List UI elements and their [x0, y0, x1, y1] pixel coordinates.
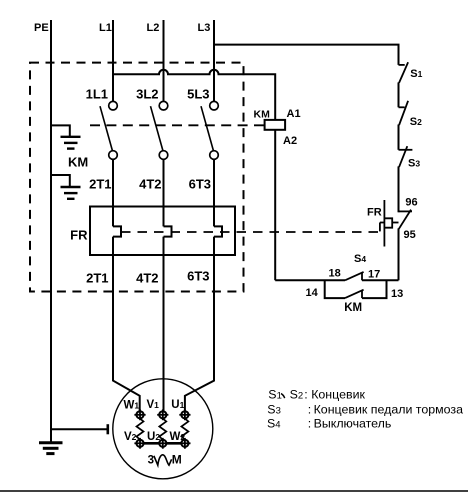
- wire phase 3 contact to heater: [213, 159, 215, 226]
- label KM (aux contact): [344, 302, 362, 314]
- terminal W1: [134, 409, 145, 420]
- terminal V2: [134, 438, 145, 449]
- wire phase 1 contact to heater: [112, 159, 114, 226]
- svg-text:13: 13: [391, 288, 403, 300]
- label W1: [124, 400, 140, 412]
- svg-text:KM: KM: [344, 302, 362, 314]
- terminal V1: [157, 409, 168, 420]
- terminal W2: [179, 438, 190, 449]
- wire L3: [213, 20, 215, 102]
- wire PE bus: [50, 20, 52, 443]
- svg-text:U2: U2: [147, 431, 160, 443]
- wire S3 to FR contact: [398, 166, 400, 212]
- svg-text:95: 95: [404, 229, 416, 241]
- svg-text:KM: KM: [254, 109, 271, 121]
- winding W1-V2: [137, 419, 144, 440]
- svg-text:3: 3: [148, 454, 154, 466]
- label 4T2 lower: [136, 271, 158, 286]
- svg-text::: :: [308, 417, 311, 431]
- svg-text:2T1: 2T1: [89, 177, 111, 192]
- svg-text:L2: L2: [147, 22, 160, 34]
- contactor KM main contact phase 2: [151, 101, 168, 159]
- bottom rule: [0, 490, 468, 492]
- svg-text:FR: FR: [367, 207, 382, 219]
- svg-text::: :: [304, 387, 307, 401]
- wire coil A2 down: [274, 130, 276, 280]
- svg-text:S4: S4: [354, 253, 366, 265]
- svg-text:Выключатель: Выключатель: [314, 417, 392, 431]
- label 13: [391, 288, 403, 300]
- wire S1 to S2: [398, 82, 400, 107]
- label S3: [408, 158, 420, 170]
- svg-text:FR: FR: [70, 228, 88, 243]
- svg-text:V1: V1: [147, 399, 160, 411]
- label 5L3: [187, 87, 209, 102]
- contactor KM main contact phase 3: [201, 101, 218, 159]
- winding U1-W2: [181, 419, 188, 440]
- svg-text:6T3: 6T3: [187, 269, 209, 284]
- mechanical link FR heaters to trip contact (dashed): [121, 223, 384, 233]
- PE branch to motor frame: [51, 424, 108, 434]
- wire phase 2 below FR: [163, 237, 165, 412]
- svg-text:5L3: 5L3: [187, 87, 209, 102]
- thermal relay FR box: [90, 207, 235, 256]
- label FR (box): [70, 228, 88, 243]
- wire S2 to S3: [398, 125, 400, 150]
- svg-text:PE: PE: [34, 22, 49, 34]
- KM auxiliary contact branch: [325, 280, 387, 298]
- label 2T1 upper: [89, 177, 111, 192]
- wire FR contact down: [398, 228, 400, 280]
- svg-text:S3: S3: [408, 158, 420, 170]
- label 14: [306, 287, 319, 299]
- label S2: [410, 116, 422, 128]
- svg-text:KM: KM: [68, 155, 88, 170]
- label 1L1: [86, 87, 108, 102]
- legend line 3: [267, 417, 391, 431]
- label L2: [147, 22, 160, 34]
- svg-text:4T2: 4T2: [139, 177, 161, 192]
- FR heater element phase 2: [164, 226, 172, 236]
- mechanical link KM contacts to coil (dashed): [90, 124, 265, 126]
- terminal U2: [157, 438, 168, 449]
- wire L2: [163, 20, 165, 102]
- svg-text:S2: S2: [290, 387, 304, 401]
- svg-text:M: M: [172, 452, 182, 466]
- label A2: [283, 135, 297, 147]
- label 4T2 upper: [139, 177, 161, 192]
- svg-text:L1: L1: [99, 22, 112, 34]
- svg-text:1L1: 1L1: [86, 87, 108, 102]
- svg-text:Концевик педали тормоза: Концевик педали тормоза: [314, 403, 463, 417]
- svg-text:S4: S4: [267, 417, 281, 431]
- limit switch S3 (NC): [399, 146, 413, 167]
- FR heater element phase 3: [214, 226, 222, 236]
- svg-text:S1: S1: [410, 68, 422, 80]
- FR heater element phase 1: [113, 226, 121, 236]
- wire phase 1 below FR: [113, 237, 140, 412]
- FR contact (NC): [399, 210, 413, 229]
- svg-text::: :: [308, 403, 311, 417]
- svg-text:2T1: 2T1: [86, 271, 108, 286]
- ground (frame) upper: [51, 125, 81, 148]
- svg-text:18: 18: [329, 268, 341, 280]
- label 6T3 lower: [187, 269, 209, 284]
- switch S4: [345, 272, 364, 280]
- FR trip actuator: [384, 200, 398, 247]
- label L1: [99, 22, 112, 34]
- ground (frame) lower: [51, 175, 81, 199]
- svg-text:6T3: 6T3: [189, 177, 211, 192]
- wire control feed from L3 to right branch: [214, 45, 399, 65]
- label V2: [124, 431, 137, 443]
- contactor KM main contact phase 1: [100, 101, 117, 159]
- label W2: [170, 431, 186, 443]
- wire bottom control left: [275, 279, 345, 281]
- motor circle: [113, 379, 213, 479]
- label 18: [329, 268, 341, 280]
- svg-text:L3: L3: [198, 22, 211, 34]
- limit switch S2: [399, 101, 409, 125]
- legend line 2: [267, 403, 463, 417]
- wire phase 3 below FR: [185, 237, 214, 412]
- wire control feed from L1 to coil (hops over L2 and L3): [113, 70, 275, 120]
- svg-text:U1: U1: [171, 399, 184, 411]
- svg-text:W1: W1: [124, 400, 140, 412]
- label V1: [147, 399, 160, 411]
- wire S4 right: [362, 279, 399, 281]
- label 3L2: [136, 87, 158, 102]
- limit switch S1: [399, 62, 409, 82]
- label 3~M motor designation: [148, 452, 182, 466]
- label A1: [287, 108, 301, 120]
- label S1: [410, 68, 422, 80]
- svg-text:S3: S3: [267, 403, 281, 417]
- svg-text:V2: V2: [124, 431, 137, 443]
- star link bar: [137, 442, 188, 445]
- svg-text:S1: S1: [268, 387, 282, 401]
- label KM (coil): [254, 109, 271, 121]
- label S4: [354, 253, 366, 265]
- wire L1: [112, 20, 114, 102]
- winding V1-U2: [159, 419, 166, 440]
- label U1: [171, 399, 184, 411]
- label 95: [404, 229, 416, 241]
- label 6T3 upper: [189, 177, 211, 192]
- label 2T1 lower: [86, 271, 108, 286]
- label 17: [368, 269, 380, 281]
- label 96: [405, 197, 417, 209]
- label U2: [147, 431, 160, 443]
- svg-text:96: 96: [405, 197, 417, 209]
- dashed enclosure box: [30, 63, 244, 292]
- legend line 1: [268, 387, 365, 401]
- svg-text:17: 17: [368, 269, 380, 281]
- ground PE bottom: [39, 443, 63, 454]
- svg-text:Концевик: Концевик: [311, 387, 365, 401]
- svg-text:14: 14: [306, 287, 319, 299]
- svg-text:3L2: 3L2: [136, 87, 158, 102]
- label PE: [34, 22, 49, 34]
- wire phase 2 contact to heater: [163, 159, 165, 226]
- svg-text:A2: A2: [283, 135, 297, 147]
- svg-text:4T2: 4T2: [136, 271, 158, 286]
- label L3: [198, 22, 211, 34]
- svg-text:A1: A1: [287, 108, 301, 120]
- label FR (actuator): [367, 207, 382, 219]
- label KM (contactor frame): [68, 155, 88, 170]
- terminal U1: [179, 409, 190, 420]
- svg-text:S2: S2: [410, 116, 422, 128]
- contactor coil KM: [265, 120, 286, 130]
